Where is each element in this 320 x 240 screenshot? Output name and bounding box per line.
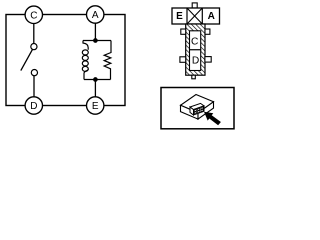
divider E/X [186, 8, 188, 24]
cavity D [190, 50, 201, 71]
connector top tab [192, 3, 197, 8]
junction dot top [93, 38, 98, 43]
relay body left face [181, 105, 199, 119]
svg-text:A: A [92, 10, 99, 21]
cavity C [190, 31, 201, 50]
terminal C [25, 6, 42, 23]
tab mid left [180, 57, 186, 63]
relay body right face [198, 102, 214, 119]
switch contact top [31, 44, 37, 50]
relay terminal block pin grid [194, 106, 205, 115]
svg-text:E: E [176, 11, 183, 22]
inductor L coil [83, 41, 88, 50]
tab mid right [205, 57, 211, 63]
relay location box [161, 88, 234, 129]
relay terminal block left face [190, 107, 194, 115]
circuit outline box [6, 15, 125, 106]
wire junction to E [94, 80, 96, 98]
relay terminal block top face [190, 103, 204, 109]
bottom rail [84, 79, 111, 81]
svg-text:C: C [30, 10, 37, 21]
top rail [83, 40, 111, 42]
tab upper left [181, 29, 186, 34]
terminal D [25, 97, 42, 114]
svg-text:A: A [208, 11, 215, 22]
tab bottom [192, 75, 196, 79]
switch blade [21, 50, 33, 71]
connector top row [172, 8, 220, 24]
svg-text:E: E [92, 101, 99, 112]
terminal A [87, 6, 104, 23]
relay body top face [181, 95, 214, 113]
terminal E [87, 97, 104, 114]
junction dot bottom [93, 77, 98, 82]
resistor R zigzag [104, 41, 111, 80]
switch contact bottom [31, 70, 37, 76]
tab upper right [205, 29, 210, 34]
svg-text:D: D [192, 55, 199, 66]
svg-text:D: D [30, 101, 37, 112]
connector column hatched body [186, 24, 205, 75]
keyway X diagonals [187, 8, 202, 24]
divider X/A [201, 8, 203, 24]
svg-text:C: C [191, 36, 198, 47]
wire A to junction [94, 23, 96, 41]
wire switch to D [33, 76, 35, 97]
arrow [204, 112, 221, 126]
wire C to switch [33, 23, 35, 43]
